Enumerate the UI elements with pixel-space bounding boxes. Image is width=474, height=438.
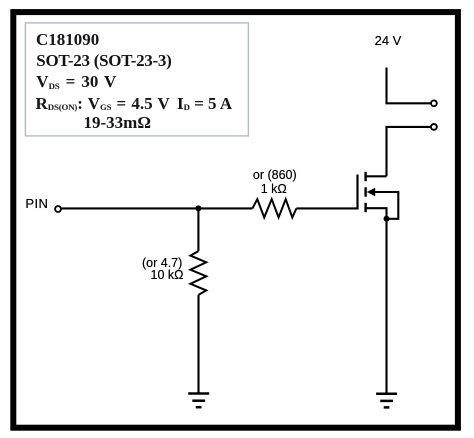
label 1 kOhm [261, 183, 287, 196]
wire resistor R2 to ground [197, 295, 199, 394]
terminal T2 [431, 124, 437, 130]
wire node A to resistor R1 [198, 207, 252, 209]
label 19-33mOhm [84, 114, 151, 131]
terminal T1 [431, 100, 437, 106]
wire terminal T2 to drain of Q1 [387, 127, 431, 176]
label 10 kOhm [151, 269, 184, 282]
node A junction dot [195, 205, 201, 211]
transistor Q1 N-channel MOSFET [358, 172, 399, 219]
ground symbol left [188, 394, 209, 408]
wire 24V supply vertical and horizontal to terminal T1 [387, 68, 431, 104]
wire node A down to resistor R2 [197, 208, 199, 251]
node source-body junction dot [384, 216, 390, 222]
resistor R2 (10 kOhm) [190, 251, 206, 295]
wire resistor R1 to gate of Q1 [296, 207, 357, 209]
ground symbol right [376, 394, 397, 408]
node label PIN [25, 198, 48, 211]
spec box [25, 23, 248, 136]
label (or 4.7) [142, 257, 182, 270]
supply label 24 V [375, 35, 402, 48]
wire PIN terminal to node A [61, 207, 198, 209]
terminal PIN [55, 206, 61, 212]
label SOT-23 (SOT-23-3) [36, 52, 171, 69]
label VDS = 30 V [36, 73, 116, 93]
resistor R1 (1 kOhm) [253, 199, 297, 217]
wire source of Q1 to ground [385, 219, 387, 394]
label or (860) [253, 169, 297, 182]
label RDS(ON): VGS = 4.5 V [36, 95, 170, 115]
label ID = 5 A [177, 95, 232, 115]
label C181090 [36, 31, 99, 48]
